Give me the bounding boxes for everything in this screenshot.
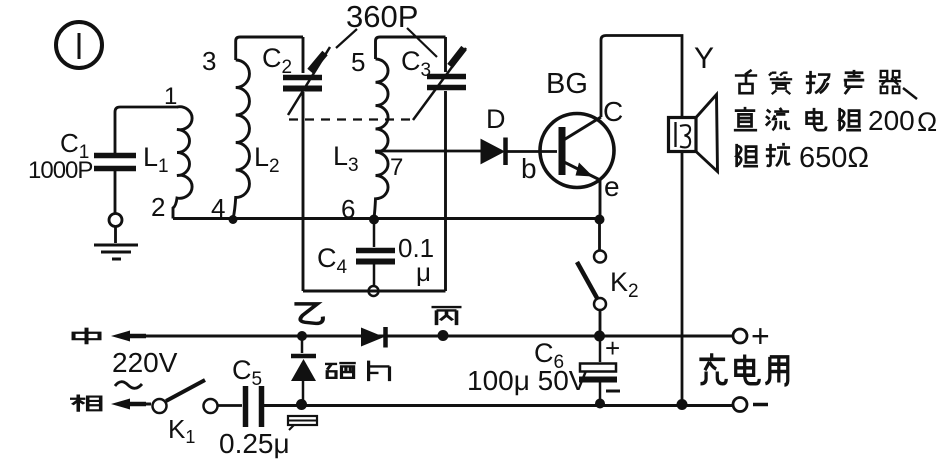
wire left box top xyxy=(236,37,303,60)
node speaker bottom junction xyxy=(677,399,688,410)
svg-text:3: 3 xyxy=(202,46,216,76)
svg-text:+: + xyxy=(605,333,620,363)
capacitor C4 xyxy=(356,220,395,286)
ground bus wire xyxy=(173,217,600,220)
switch K1 xyxy=(153,380,218,413)
arrow on live line xyxy=(111,399,130,410)
junction circle C4 bottom xyxy=(369,286,379,296)
diode D xyxy=(481,138,557,166)
svg-text:200: 200 xyxy=(868,105,915,136)
wire to ground xyxy=(114,227,117,243)
label C6 minus xyxy=(606,390,620,393)
svg-text:Ω: Ω xyxy=(917,107,937,137)
svg-text:C4: C4 xyxy=(317,243,348,278)
inductor L1 xyxy=(173,107,192,219)
svg-text:100μ 50V: 100μ 50V xyxy=(467,365,588,396)
figure number 1 (circled) xyxy=(56,22,102,68)
capacitor C6 (electrolytic) xyxy=(579,336,617,403)
capacitor C5 xyxy=(246,386,262,427)
inductor L3 xyxy=(374,59,388,219)
svg-text:650Ω: 650Ω xyxy=(799,142,869,174)
svg-text:C2: C2 xyxy=(262,43,292,78)
svg-text:C5: C5 xyxy=(232,355,262,390)
chassis symbol xyxy=(288,416,317,430)
wire bottom rail xyxy=(264,404,733,407)
wire live stub xyxy=(118,403,151,406)
terminal (open circle under C1) xyxy=(109,214,122,227)
svg-text:b: b xyxy=(521,153,537,184)
node C6 bottom junction xyxy=(595,399,605,409)
node K2 bottom junction xyxy=(594,331,605,342)
arrow on neutral line xyxy=(111,331,130,342)
switch K2 xyxy=(577,224,606,336)
label bing xyxy=(432,307,462,325)
label (reed speaker) xyxy=(735,70,757,93)
svg-text:K1: K1 xyxy=(168,414,195,447)
wire C1 bottom xyxy=(114,171,117,213)
wire collector to speaker xyxy=(601,36,682,118)
node yi junction xyxy=(297,331,307,341)
svg-text:D: D xyxy=(486,104,506,134)
svg-text:+: + xyxy=(751,318,770,354)
svg-text:1000P: 1000P xyxy=(28,157,92,184)
svg-text:6: 6 xyxy=(341,194,355,224)
svg-text:C3: C3 xyxy=(401,46,431,81)
wire L3 tap to diode xyxy=(375,150,481,153)
svg-text:C: C xyxy=(603,96,623,127)
label xiang (live) xyxy=(70,394,101,411)
wire C1 top to L1 xyxy=(115,107,178,153)
wire box bottom xyxy=(303,290,446,293)
svg-text:1: 1 xyxy=(164,83,177,110)
leader line to C2 xyxy=(336,29,357,48)
svg-text:220V: 220V xyxy=(112,347,178,378)
capacitor C1 xyxy=(94,156,136,169)
svg-text:2: 2 xyxy=(151,192,165,222)
wire right box top xyxy=(376,37,446,59)
selenium diode (to chassis) xyxy=(291,336,316,404)
wire speaker down xyxy=(681,152,684,405)
svg-text:L3: L3 xyxy=(333,141,359,176)
wire emitter down xyxy=(599,180,602,220)
node junction on live rail xyxy=(296,399,307,410)
svg-text:5: 5 xyxy=(351,47,365,77)
gang coupling dashed line xyxy=(289,118,412,120)
wire neutral rail xyxy=(118,335,733,338)
svg-text:4: 4 xyxy=(211,193,225,223)
transistor BG xyxy=(540,114,614,188)
speaker Y xyxy=(669,95,718,172)
svg-text:μ: μ xyxy=(416,257,431,287)
label xipian (selenium wafer) xyxy=(325,363,356,378)
svg-text:7: 7 xyxy=(390,154,403,181)
inductor L2 xyxy=(233,60,249,219)
arrow of C2 xyxy=(288,47,330,115)
capacitor C3 (variable) xyxy=(427,37,466,291)
node bing xyxy=(438,330,449,341)
svg-text:Y: Y xyxy=(694,42,714,75)
node emitter junction xyxy=(595,215,605,225)
svg-text:BG: BG xyxy=(546,68,588,100)
arrow of C3 xyxy=(413,48,466,120)
svg-text:e: e xyxy=(604,171,620,202)
node 4 xyxy=(229,215,238,224)
svg-text:K2: K2 xyxy=(610,267,639,302)
label ~ xyxy=(115,382,142,389)
node 6 xyxy=(369,215,379,225)
wire K1 to C5 xyxy=(218,404,242,407)
ground xyxy=(94,245,138,259)
diode (selenium rectifier) xyxy=(361,327,386,348)
terminal minus xyxy=(733,398,747,412)
capacitor C2 (variable) xyxy=(283,37,322,291)
label yi xyxy=(294,304,323,324)
label zhong (neutral) xyxy=(74,328,100,345)
label (for charging) xyxy=(699,353,726,384)
leader line to C3 xyxy=(407,28,437,57)
svg-text:0.25μ: 0.25μ xyxy=(219,428,290,459)
svg-text:L1: L1 xyxy=(143,142,169,177)
label (impedance 650 ohm) xyxy=(737,144,758,167)
svg-text:L2: L2 xyxy=(254,142,280,177)
terminal plus xyxy=(733,329,747,343)
label (DC resistance 200 ohm) xyxy=(734,107,757,130)
